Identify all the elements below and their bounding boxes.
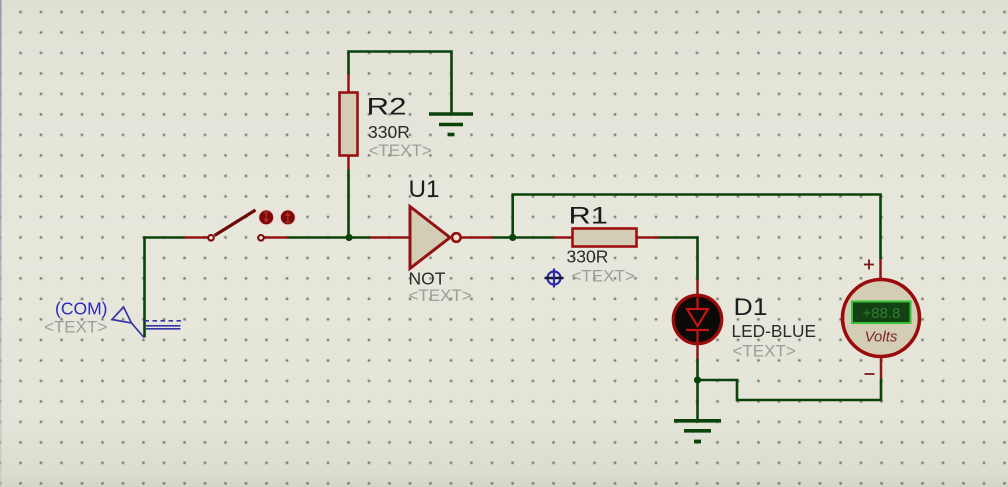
wire R1 left stub — [553, 236, 573, 239]
svg-text:Volts: Volts — [865, 329, 898, 346]
switch SW1 — [184, 210, 295, 241]
wire node B to R1 — [513, 236, 553, 239]
minus mark — [865, 373, 875, 375]
wire left corner to terminal — [145, 238, 185, 338]
svg-text:330R: 330R — [567, 247, 609, 267]
svg-text:R2: R2 — [367, 94, 407, 121]
svg-text:LED-BLUE: LED-BLUE — [732, 321, 817, 341]
wire gate input stub — [370, 236, 410, 239]
resistor R2 — [340, 93, 358, 156]
svg-text:330R: 330R — [368, 122, 410, 142]
junction node C — [694, 376, 701, 383]
svg-text:<TEXT>: <TEXT> — [409, 286, 472, 305]
svg-text:D1: D1 — [734, 294, 768, 321]
svg-text:<TEXT>: <TEXT> — [369, 141, 432, 160]
pin stub left — [184, 236, 208, 239]
wire R1 right stub — [637, 236, 659, 239]
junction node A — [345, 234, 352, 241]
svg-text:R1: R1 — [569, 203, 609, 230]
wire voltmeter minus stub — [880, 358, 883, 379]
actuator down — [259, 210, 274, 225]
svg-text:<TEXT>: <TEXT> — [733, 342, 796, 361]
wire gate output to node B — [493, 236, 513, 239]
plus mark — [864, 260, 874, 270]
wire LED cathode stub — [696, 344, 699, 359]
wire R2 bottom stub — [347, 156, 350, 170]
lever — [215, 210, 256, 236]
wire LED cathode to node C — [696, 359, 699, 380]
wire R2 top to ground — [349, 52, 452, 114]
terminal (COM) — [112, 307, 182, 338]
origin marker — [545, 269, 564, 288]
wire R2 top stub — [347, 74, 350, 93]
wire node C to ground — [696, 380, 699, 419]
pin circle left — [208, 235, 214, 241]
wire voltmeter plus stub — [879, 259, 882, 279]
wire R2 bottom to node A — [347, 170, 350, 238]
svg-text:+88.8: +88.8 — [863, 305, 901, 322]
pin circle right — [258, 235, 264, 241]
op-amp U1 (NOT gate) — [410, 207, 461, 269]
svg-text:<TEXT>: <TEXT> — [44, 318, 107, 337]
wire LED anode stub — [696, 280, 699, 296]
svg-text:U1: U1 — [409, 176, 440, 203]
resistor R1 — [573, 229, 637, 247]
wire node B to voltmeter plus — [513, 195, 881, 260]
junction node B — [509, 234, 516, 241]
wire switch to node A — [288, 236, 371, 239]
wire node C to voltmeter minus — [698, 379, 882, 401]
wire gate output stub — [461, 236, 493, 239]
svg-text:(COM): (COM) — [55, 299, 107, 319]
ground GND1 — [429, 114, 473, 135]
voltmeter VM1 — [843, 260, 920, 375]
wire R1 to LED anode — [659, 238, 698, 280]
svg-text:<TEXT>: <TEXT> — [572, 267, 635, 286]
ground GND2 — [674, 421, 721, 442]
pin stub right — [265, 236, 288, 239]
LED D1 — [673, 295, 721, 343]
actuator up — [280, 210, 295, 225]
